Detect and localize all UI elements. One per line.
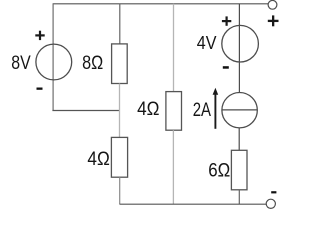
wire top horizontal: [53, 3, 269, 5]
value label 6ohm: [208, 161, 230, 182]
svg-text:4Ω: 4Ω: [87, 149, 109, 170]
current source I1 2A: [222, 93, 257, 128]
value label 4ohm (middle): [137, 99, 159, 120]
voltage source V2 4V: [222, 16, 259, 68]
wire middle vertical bottom: [172, 130, 174, 204]
svg-text:4V: 4V: [197, 32, 217, 53]
resistor R2 4ohm (bottom left): [111, 137, 127, 177]
svg-text:4Ω: 4Ω: [137, 99, 159, 120]
voltage source V1 8V: [35, 31, 71, 90]
svg-text:6Ω: 6Ω: [208, 161, 230, 182]
wire 2A to 6ohm: [238, 128, 240, 150]
value label 4V: [197, 32, 217, 53]
value label 8ohm: [82, 53, 103, 74]
wire bottom-left 4ohm to bottom rail: [119, 177, 121, 204]
wire bottom-left horizontal: [52, 110, 120, 112]
svg-text:8V: 8V: [11, 53, 31, 74]
svg-text:8Ω: 8Ω: [82, 53, 103, 74]
value label 2A: [193, 100, 212, 121]
wire 8ohm bottom to junction to 4ohm: [119, 84, 121, 138]
wire right vertical top: [238, 4, 240, 93]
current direction arrow: [213, 88, 219, 129]
terminal + (top right): [268, 0, 279, 26]
terminal - (bottom right): [266, 191, 276, 208]
value label 4ohm (bottom left): [87, 149, 109, 170]
resistor R1 8ohm: [112, 44, 128, 84]
wire 6ohm to bottom rail: [238, 190, 240, 204]
value label 8V: [11, 53, 31, 74]
wire middle vertical top: [173, 4, 175, 92]
resistor R3 4ohm (middle): [166, 92, 182, 131]
resistor R4 6ohm: [231, 150, 247, 190]
wire 8ohm top stub: [119, 4, 121, 44]
wire left vertical: [52, 4, 54, 111]
svg-text:2A: 2A: [193, 100, 212, 121]
wire bottom rail: [120, 203, 267, 205]
